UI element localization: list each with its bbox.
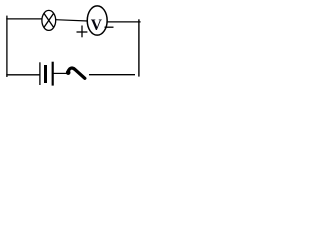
wire right vertical [138,19,140,76]
switch S1 pivot dot [66,70,71,75]
battery BT1 plate long left [39,62,41,85]
plus polarity mark [81,26,83,38]
wire voltmeter to right [107,21,141,23]
lamp L1 circle [42,10,56,30]
lamp L1 cross stroke 2 [44,13,54,27]
minus polarity mark [105,26,114,28]
wire bottom left horizontal [6,74,39,76]
battery BT1 plate right [52,62,54,86]
battery BT1 plate thick middle [44,65,47,83]
wire top-left horizontal [6,18,42,20]
wire bottom right horizontal [89,74,135,76]
voltmeter U1 ellipse [87,6,107,35]
lamp L1 cross stroke 1 [44,13,54,27]
svg-text:V: V [91,17,103,34]
wire battery to switch [54,72,67,74]
switch S1 blade [68,68,85,78]
wire left vertical [6,16,8,77]
wire lamp to voltmeter [56,20,88,21]
